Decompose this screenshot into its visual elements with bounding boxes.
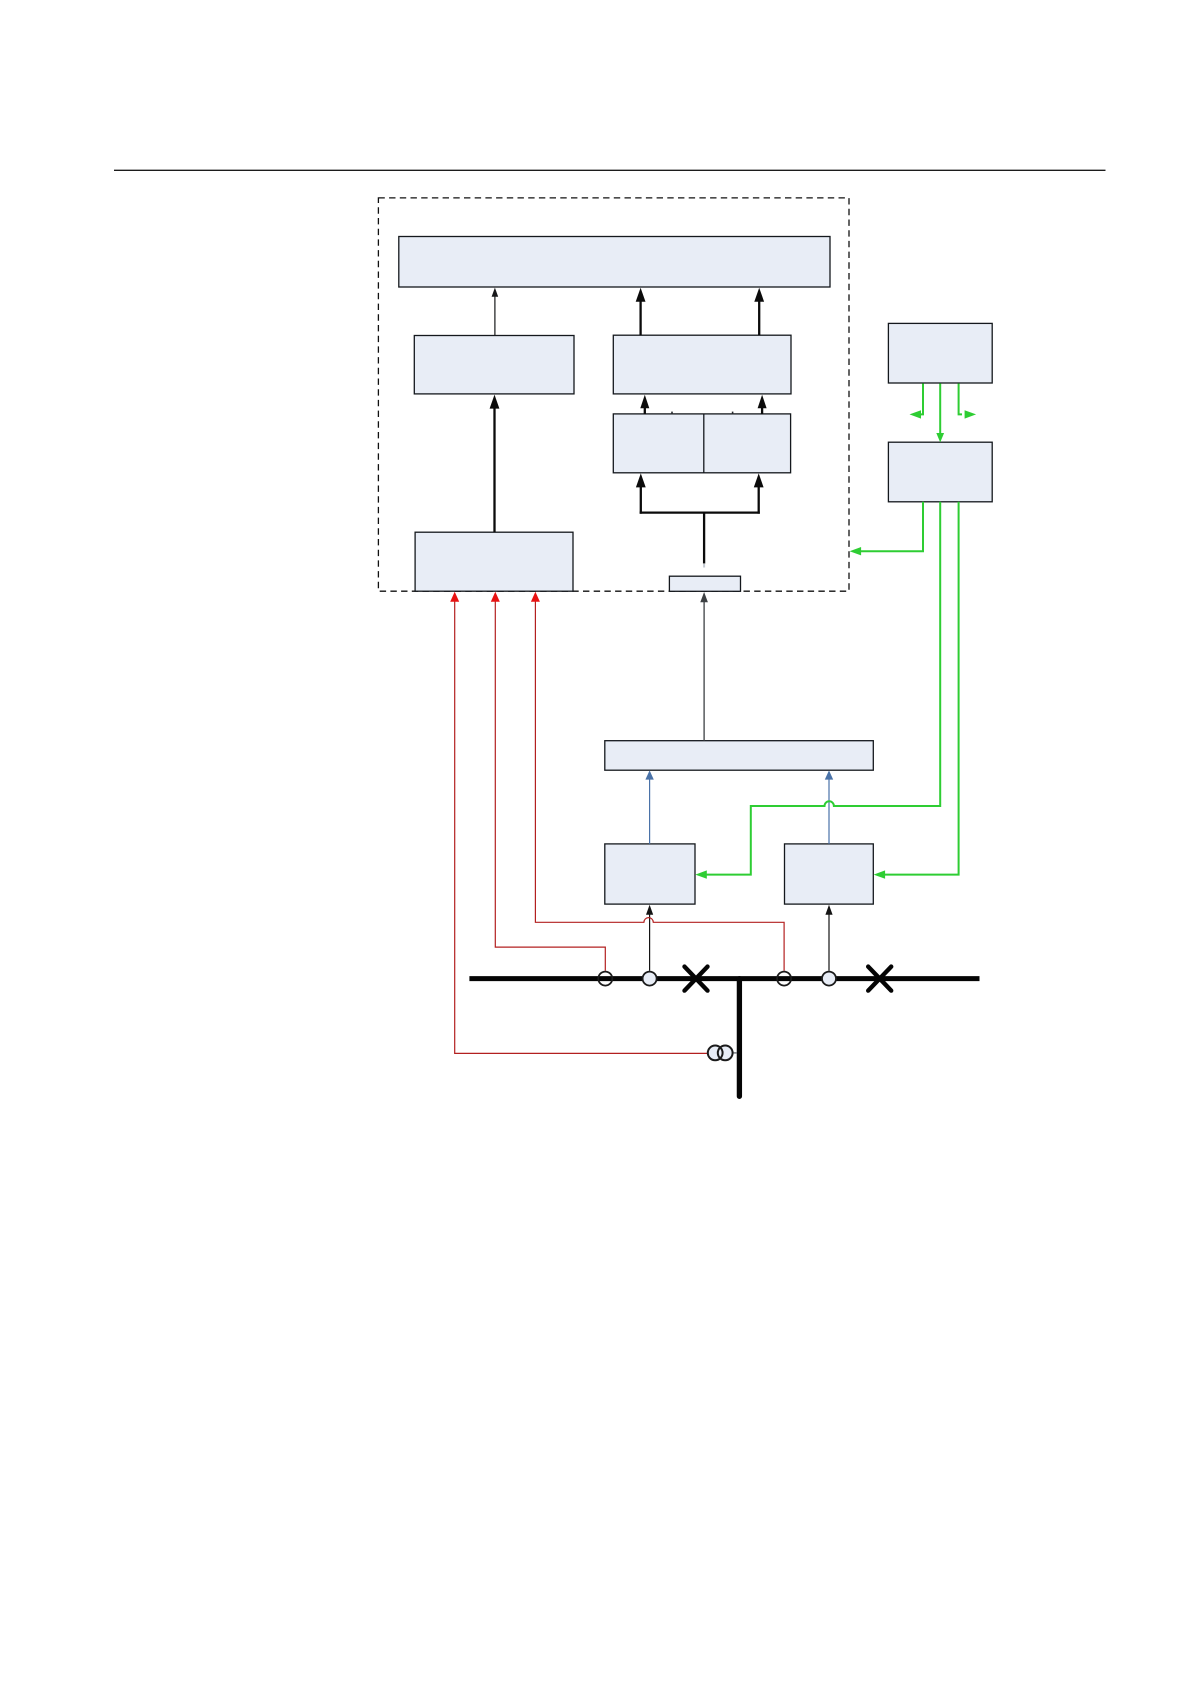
- block H (right column lower): [888, 442, 992, 502]
- header rule: [114, 169, 1106, 171]
- feeder CT pair (two overlapping circles): [708, 1046, 723, 1061]
- green stub G down-left: [920, 384, 924, 415]
- block D (double box): [613, 414, 790, 473]
- black arrow CT2 to J: [649, 914, 651, 971]
- arrow D to C (right): [761, 406, 763, 414]
- block K (small right): [785, 844, 874, 904]
- blue arrow K to I: [828, 779, 830, 844]
- junction tree: right riser arrow into D: [758, 487, 760, 514]
- gray arrow from bar I up into thin strip F: [703, 602, 705, 741]
- black arrow CT4 to K: [828, 914, 830, 971]
- CT1 on busbar (transparent): [598, 972, 612, 986]
- block B (second row left): [414, 336, 574, 394]
- CT2 on busbar (opaque): [643, 972, 657, 986]
- breaker X mark left: [685, 967, 708, 991]
- arrow B to A (thin): [494, 296, 496, 336]
- CT3 on busbar (transparent): [777, 972, 791, 986]
- red wire 1: feeder CT pair to block E: [455, 602, 708, 1054]
- arrow C to A (left, thick): [639, 300, 641, 335]
- arrow C to A (right, thick): [758, 300, 760, 335]
- block D top-edge tick left: [671, 412, 673, 415]
- breaker X mark right: [868, 967, 891, 991]
- arrow D to C (left): [644, 406, 646, 414]
- feeder drop line: [737, 979, 742, 1097]
- block D divider: [703, 414, 705, 473]
- gray stub from feeder CT pair to feeder: [725, 1052, 737, 1054]
- junction tree: centre stem: [703, 513, 705, 564]
- green wire H to block J (with hop over blue): [705, 502, 940, 875]
- junction tree: left riser arrow into D: [640, 487, 642, 514]
- block F (thin strip box): [669, 576, 740, 591]
- block C (second row right): [613, 335, 791, 394]
- arrow E to B (thick): [493, 407, 495, 533]
- CT4 on busbar (opaque): [822, 972, 836, 986]
- blue arrow J to I: [649, 779, 651, 844]
- busbar: [469, 976, 979, 981]
- green wire H to dashed enclosure: [860, 502, 924, 551]
- green wire H to block K: [883, 502, 958, 875]
- block G (right column upper): [888, 323, 992, 383]
- block D top-edge tick right: [732, 412, 734, 415]
- dashed enclosure (IED boundary): [378, 198, 849, 591]
- block E (bottom left in enclosure): [415, 532, 573, 591]
- green stub G down-right: [959, 384, 962, 415]
- red wire 2: bus CT1 to block E: [495, 602, 605, 971]
- green arrow G to H: [939, 384, 941, 434]
- block A (top wide): [399, 237, 830, 288]
- block I (wide bar): [605, 741, 874, 771]
- junction tree under block D: horizontal joiner: [640, 511, 760, 513]
- red wire 3: bus CT3 to block E (with hop): [535, 602, 784, 971]
- faint stem remnant above thin strip F: [703, 564, 705, 568]
- block J (small left): [605, 844, 695, 904]
